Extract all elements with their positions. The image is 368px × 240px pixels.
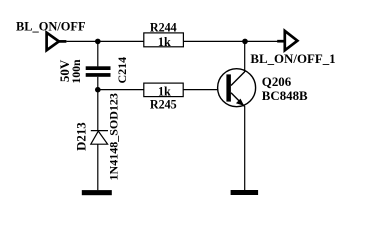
wire: mid node down to D213 <box>97 90 99 131</box>
svg-text:100n: 100n <box>69 59 83 84</box>
wire: D213 to ground <box>97 144 99 190</box>
svg-text:1N4148_SOD123: 1N4148_SOD123 <box>107 93 121 180</box>
node junction mid (base branch) <box>95 87 101 93</box>
svg-text:1k: 1k <box>158 35 171 49</box>
wire: mid node to R245 <box>98 89 144 91</box>
port BL_ON/OFF_1 (output port symbol) <box>277 31 297 50</box>
transistor Q206 <box>218 69 256 107</box>
capacitor C214 <box>86 66 111 76</box>
svg-text:BL_ON/OFF_1: BL_ON/OFF_1 <box>250 52 335 66</box>
svg-text:R244: R244 <box>150 21 177 35</box>
node junction at top right (collector node) <box>242 39 248 45</box>
resistor R244 <box>144 21 184 49</box>
svg-text:BC848B: BC848B <box>262 89 308 103</box>
wire: R244 to output port <box>183 40 277 42</box>
port BL_ON/OFF (input port symbol) <box>47 33 67 51</box>
wire: collector up to top node <box>244 41 246 72</box>
svg-text:1k: 1k <box>158 85 171 99</box>
svg-text:D213: D213 <box>74 122 88 150</box>
wire: top node down to C214 <box>97 41 99 66</box>
svg-text:R245: R245 <box>150 98 177 112</box>
wire: C214 to mid node <box>97 77 99 90</box>
resistor R245 <box>144 83 183 111</box>
ground (right) <box>231 190 259 195</box>
svg-text:C214: C214 <box>115 57 129 84</box>
diode D213 <box>91 131 108 145</box>
wire: emitter down to ground <box>244 106 246 190</box>
svg-text:BL_ON/OFF: BL_ON/OFF <box>16 19 86 33</box>
svg-text:Q206: Q206 <box>262 75 292 89</box>
wire: R245 to base <box>183 89 226 91</box>
node junction at top left <box>95 39 101 45</box>
wire: port to R244 <box>66 40 144 42</box>
ground (left) <box>82 190 112 195</box>
